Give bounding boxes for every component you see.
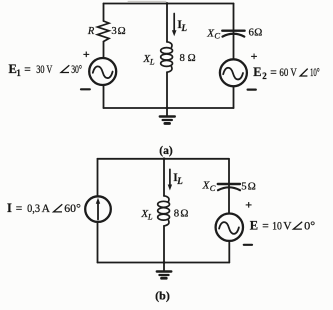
- inductor XL coil bottom lead (a): [167, 66, 172, 72]
- inductor XL coil loops (b): [158, 201, 170, 207]
- inductor XL coil loops (a): [161, 48, 173, 54]
- svg-text:3: 3: [111, 25, 116, 37]
- svg-text:10°: 10°: [310, 67, 320, 79]
- capacitor XC top plate (b): [218, 183, 240, 185]
- svg-text:2: 2: [262, 71, 267, 81]
- svg-text:L: L: [176, 176, 183, 186]
- svg-text:30°: 30°: [71, 64, 82, 76]
- svg-text:1: 1: [16, 68, 21, 78]
- svg-text:Ω: Ω: [248, 180, 256, 192]
- wire: right branch top lead (a): [233, 4, 235, 60]
- svg-text:R: R: [87, 26, 95, 37]
- svg-text:Ω: Ω: [254, 26, 262, 38]
- svg-text:Ω: Ω: [188, 52, 196, 64]
- svg-text:(b): (b): [155, 289, 170, 303]
- E2 minus sign: [248, 88, 256, 90]
- svg-text:Ω: Ω: [118, 25, 126, 37]
- voltage source E1 circle: [89, 58, 116, 85]
- svg-text:8: 8: [174, 208, 179, 220]
- angle symbol for E: [293, 222, 302, 229]
- wire: inductor to bottom bus (a): [166, 72, 168, 108]
- svg-text:V: V: [283, 220, 292, 232]
- svg-text:0°: 0°: [304, 220, 315, 232]
- inductor XL coil top lead (a): [167, 42, 172, 48]
- capacitor XC curved plate (a): [223, 34, 245, 37]
- voltage source E2 sine symbol: [223, 68, 243, 80]
- voltage source E1 sine symbol: [93, 66, 113, 78]
- svg-text:+: +: [251, 49, 258, 63]
- ground stem (b): [163, 263, 165, 271]
- wire: source E1 to bottom bus: [103, 85, 105, 108]
- current arrow IL (a): [173, 14, 175, 32]
- svg-text:=: =: [262, 220, 269, 232]
- svg-text:E: E: [250, 218, 258, 232]
- wire: current source to bottom bus (b): [97, 222, 99, 263]
- svg-text:E: E: [253, 65, 261, 79]
- svg-text:=: =: [16, 203, 22, 215]
- wire: top bus of circuit (b): [98, 158, 229, 160]
- current source I circle (b): [85, 196, 111, 222]
- ground symbol (a): [160, 115, 175, 117]
- svg-text:10: 10: [272, 220, 282, 232]
- svg-text:30 V: 30 V: [36, 64, 53, 76]
- junction node: middle branch / bottom bus (a): [166, 107, 169, 110]
- E1 minus sign: [81, 88, 90, 90]
- junction node: middle branch / bottom bus (b): [163, 261, 166, 264]
- svg-text:5: 5: [241, 180, 246, 192]
- current arrow IL (b): [169, 169, 171, 185]
- svg-text:A: A: [42, 203, 51, 215]
- svg-text:L: L: [147, 211, 153, 221]
- wire: top bus of circuit (a): [104, 3, 234, 5]
- ground symbol (b): [157, 270, 172, 272]
- svg-text:60°: 60°: [64, 203, 81, 215]
- wire: middle branch top lead (a): [166, 4, 168, 43]
- voltage source E sine symbol (b): [219, 222, 239, 234]
- svg-text:=: =: [270, 67, 277, 79]
- junction node: middle branch / top bus (a): [166, 2, 169, 5]
- ground stem (a): [166, 108, 168, 116]
- wire: resistor to source E1: [103, 42, 105, 59]
- svg-text:8: 8: [180, 52, 185, 64]
- wire: left branch top lead (b): [97, 159, 99, 197]
- svg-text:L: L: [181, 23, 188, 33]
- svg-text:0,3: 0,3: [27, 203, 40, 215]
- wire: source E2 to bottom bus: [233, 86, 235, 108]
- angle symbol for E1: [61, 65, 69, 72]
- svg-text:Ω: Ω: [180, 208, 188, 220]
- svg-text:I: I: [7, 201, 12, 215]
- svg-text:+: +: [83, 47, 90, 61]
- wire: bottom bus of circuit (b): [98, 262, 230, 264]
- svg-text:60 V: 60 V: [279, 67, 297, 79]
- angle symbol for E2: [300, 69, 308, 76]
- wire: middle branch top lead (b): [163, 159, 165, 196]
- resistor R (3 ohm) zigzag: [98, 21, 110, 42]
- junction node: middle branch / top bus (b): [163, 157, 166, 160]
- svg-text:(a): (a): [159, 145, 173, 157]
- svg-text:+: +: [245, 197, 252, 211]
- inductor XL coil top lead (b): [164, 196, 169, 202]
- voltage source E2 circle: [220, 59, 247, 86]
- wire: left branch top lead (a): [103, 4, 105, 22]
- wire: source E to bottom bus (b): [228, 241, 230, 263]
- voltage source E circle (b): [216, 214, 243, 241]
- svg-text:C: C: [210, 183, 216, 193]
- current source I arrow (b): [97, 203, 99, 220]
- wire: right branch top lead (b): [228, 159, 230, 214]
- svg-text:C: C: [214, 31, 220, 41]
- capacitor XC top plate (a): [222, 30, 244, 32]
- E minus sign (b): [244, 244, 252, 246]
- capacitor XC curved plate (b): [218, 187, 240, 190]
- wire: bottom bus of circuit (a): [104, 107, 234, 109]
- angle symbol for I: [54, 204, 63, 212]
- svg-text:L: L: [149, 56, 155, 66]
- wire: inductor to bottom bus (b): [163, 226, 165, 263]
- inductor XL coil bottom lead (b): [164, 220, 169, 226]
- svg-text:=: =: [24, 64, 31, 76]
